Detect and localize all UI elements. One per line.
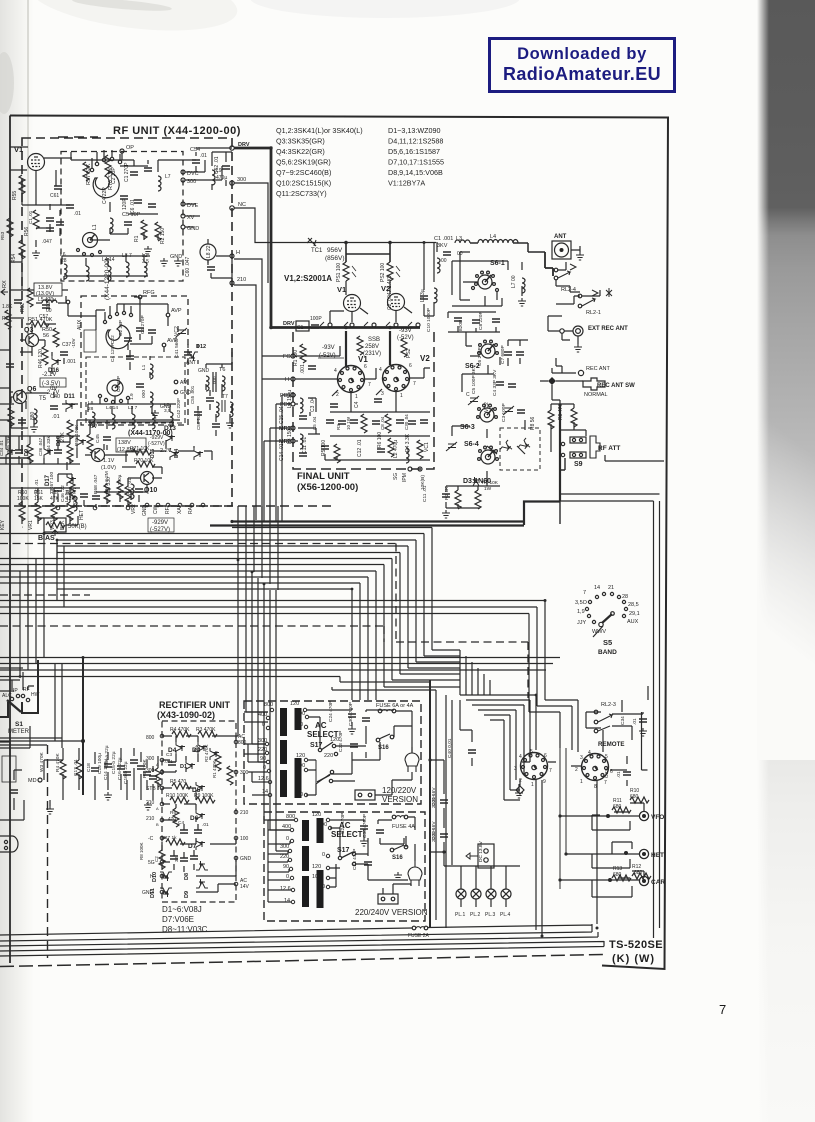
wire bus h11 xyxy=(57,589,352,687)
wire Q3 area xyxy=(10,318,64,374)
svg-text:1W: 1W xyxy=(484,486,492,492)
wire bus verticals left xyxy=(20,533,64,676)
svg-text:R5 470: R5 470 xyxy=(170,779,186,785)
label 1.8K R48 xyxy=(2,304,13,329)
wire bus h10 xyxy=(0,583,360,687)
ground T7 xyxy=(226,420,234,428)
label -93V (-52V) right xyxy=(397,328,414,341)
resistor R71 10K xyxy=(130,446,151,455)
svg-text:(856V): (856V) xyxy=(325,255,345,262)
svg-text:D4,11,12:1S2588: D4,11,12:1S2588 xyxy=(388,137,443,146)
svg-text:V2: V2 xyxy=(420,354,430,363)
diode D3 xyxy=(470,477,482,486)
svg-text:14: 14 xyxy=(284,898,290,904)
svg-text:C1 270P: C1 270P xyxy=(140,315,146,334)
capacitor C42 220P xyxy=(176,398,202,418)
svg-text:R64 33k: R64 33k xyxy=(46,436,52,454)
resistor R51 470K xyxy=(28,317,53,327)
capacitor C15 .04 xyxy=(279,406,307,424)
svg-text:C61: C61 xyxy=(50,193,59,199)
capacitor C12 .01 xyxy=(357,439,385,457)
svg-text:R55: R55 xyxy=(12,191,18,200)
svg-text:3: 3 xyxy=(580,755,583,761)
svg-text:C3: C3 xyxy=(166,752,172,758)
svg-text:H: H xyxy=(285,377,289,383)
svg-text:D8: D8 xyxy=(184,873,190,880)
svg-text:L8 22: L8 22 xyxy=(206,245,212,258)
svg-text:120: 120 xyxy=(290,701,299,707)
svg-text:680: 680 xyxy=(630,794,639,800)
svg-text:PL.3: PL.3 xyxy=(485,912,496,918)
wire bus h8 xyxy=(0,571,376,687)
lamp circle PL xyxy=(200,239,216,265)
svg-text:REMOTE: REMOTE xyxy=(598,741,624,748)
wire right bundle verticals xyxy=(529,700,578,752)
resistor R11 680 xyxy=(612,798,631,813)
svg-text:800: 800 xyxy=(264,702,273,708)
wire plate leads heavy xyxy=(346,331,390,366)
svg-text:C10 1000P: C10 1000P xyxy=(426,308,432,332)
svg-text:JJY: JJY xyxy=(577,620,587,626)
rotary switch S fan top xyxy=(90,150,121,198)
svg-text:14: 14 xyxy=(594,585,600,591)
S17 arm lower xyxy=(338,852,355,866)
wire bus h9 xyxy=(0,577,368,687)
svg-text:C34 .01: C34 .01 xyxy=(0,440,4,456)
svg-text:C41 560P: C41 560P xyxy=(174,337,180,358)
svg-text:R8 56: R8 56 xyxy=(530,416,536,430)
svg-text:A: A xyxy=(156,806,159,811)
svg-text:.001: .001 xyxy=(66,359,76,365)
svg-text:RF ATT: RF ATT xyxy=(598,445,620,452)
svg-text:C5 100P 3KV: C5 100P 3KV xyxy=(471,364,477,394)
coil L7 xyxy=(158,174,171,191)
wire het xyxy=(566,842,639,868)
capacitor C19 100u xyxy=(97,753,125,774)
svg-text:C1 270P: C1 270P xyxy=(124,162,130,182)
svg-text:C53: C53 xyxy=(0,297,1,306)
diode D6 xyxy=(190,810,205,822)
220/240 version dashed box xyxy=(264,812,425,921)
svg-text:RFG: RFG xyxy=(143,290,155,296)
svg-text:CW: CW xyxy=(153,505,159,514)
rotary S6-4 xyxy=(464,441,498,464)
diode D2 xyxy=(193,745,219,760)
label SSB 258V (231V) xyxy=(363,337,381,357)
svg-text:28: 28 xyxy=(622,594,628,600)
capacitor C1 270P xyxy=(124,162,152,182)
resistor R54 R2 xyxy=(11,240,25,263)
label AM pin xyxy=(174,380,187,386)
svg-text:C15 .04: C15 .04 xyxy=(279,406,285,424)
wire att xyxy=(551,404,586,452)
fuse 2A bottom xyxy=(408,926,430,939)
resistor R12 680 xyxy=(632,864,651,879)
resistor R67 100 xyxy=(49,472,75,499)
wire feed DC connector xyxy=(446,695,452,928)
svg-text:C8 .04: C8 .04 xyxy=(380,416,385,430)
capacitor C15a 22u xyxy=(104,745,138,768)
svg-text:-C: -C xyxy=(148,836,154,842)
13.8V box xyxy=(34,283,62,297)
svg-text:S17: S17 xyxy=(337,847,350,854)
svg-text:C40: C40 xyxy=(50,394,60,400)
svg-text:1.8K: 1.8K xyxy=(2,304,13,310)
diode D1 xyxy=(180,760,195,772)
svg-text:3.5: 3.5 xyxy=(142,259,149,265)
svg-text:AUX: AUX xyxy=(627,619,639,625)
resistor R2 150 xyxy=(155,222,166,244)
wire ANT down heavy xyxy=(545,252,553,276)
connector block upper xyxy=(355,790,375,800)
svg-text:300: 300 xyxy=(237,177,246,183)
svg-text:C18: C18 xyxy=(86,763,92,772)
diode D10 vertical xyxy=(56,436,86,448)
wire lower ac box xyxy=(268,817,415,902)
ground Q6 xyxy=(30,424,38,432)
svg-text:6: 6 xyxy=(409,363,412,369)
svg-text:400: 400 xyxy=(282,824,291,830)
svg-text:800: 800 xyxy=(146,735,155,741)
taps lower left xyxy=(280,814,298,904)
capacitor C60 .047 xyxy=(185,256,215,277)
capacitor C14 .01 xyxy=(279,443,307,461)
svg-text:2: 2 xyxy=(336,392,339,398)
caps C10 1000P C8 820P C6 220P xyxy=(426,308,500,332)
svg-text:C15-b 22µ: C15-b 22µ xyxy=(111,751,117,774)
svg-text:GND: GND xyxy=(142,890,154,896)
capacitor C45 xyxy=(95,434,111,443)
svg-text:STB: STB xyxy=(146,786,156,792)
rotary switch fan mid xyxy=(103,304,132,349)
svg-text:120: 120 xyxy=(296,753,305,759)
wire T6 T7 xyxy=(198,344,232,436)
caps C5 C4 33P xyxy=(471,364,516,396)
diode D8 rect xyxy=(184,861,208,880)
diode D16 xyxy=(48,356,61,374)
wire top bus to ANT xyxy=(470,243,545,252)
svg-text:VR1: VR1 xyxy=(28,520,34,530)
resistor R57 82K xyxy=(83,162,92,185)
resistor R10 680 xyxy=(630,788,649,803)
svg-text:300: 300 xyxy=(146,768,155,774)
coil L3 top xyxy=(455,236,470,257)
plug upper xyxy=(405,747,419,772)
heavy vertical x83 xyxy=(82,657,84,795)
coil L1 mid xyxy=(141,364,153,379)
resistor R7 1K xyxy=(164,835,185,845)
capacitor C2 33P xyxy=(111,167,138,184)
svg-text:REC ANT: REC ANT xyxy=(586,366,610,372)
svg-text:C3 100P: C3 100P xyxy=(501,403,507,422)
svg-text:956V: 956V xyxy=(327,247,343,254)
wire long verticals to AC taps xyxy=(236,560,294,851)
wire meter bus xyxy=(0,726,83,748)
wire Q9 Q10 area xyxy=(57,420,212,508)
svg-text:V1: V1 xyxy=(358,355,368,364)
svg-text:S9: S9 xyxy=(574,461,583,468)
wire bus h13 xyxy=(0,607,537,706)
resistor R1 100 final xyxy=(293,344,306,366)
diode D9 rect xyxy=(184,879,208,898)
socket remote right xyxy=(575,750,613,790)
svg-text:400: 400 xyxy=(258,712,267,718)
wire rectifier internals xyxy=(162,736,236,892)
label ANT GND small xyxy=(186,360,210,374)
RF coil sub-box xyxy=(86,357,185,423)
svg-text:L2 470µ: L2 470µ xyxy=(393,440,399,458)
svg-text:C11 .01: C11 .01 xyxy=(302,437,308,454)
cluster R56 C50 .047 xyxy=(24,210,54,245)
ground L7 xyxy=(518,298,526,306)
S17 lower arm box xyxy=(316,760,334,784)
svg-text:210: 210 xyxy=(146,800,155,806)
svg-text:GND: GND xyxy=(142,505,148,517)
transformer bar C3 xyxy=(302,876,309,907)
coils L6 L5 L4 L3 L2 row mid xyxy=(88,400,173,429)
resistor R50 56 xyxy=(42,327,59,347)
thin vertical x62 xyxy=(55,663,62,748)
fuse upper xyxy=(376,703,414,713)
capacitor C1 270P mid xyxy=(140,315,156,334)
ground ANT xyxy=(571,246,584,260)
svg-text:220/240V VERSION: 220/240V VERSION xyxy=(355,908,428,917)
svg-text:R70 10K: R70 10K xyxy=(134,458,154,464)
label -93V (-52V) left xyxy=(318,345,344,359)
svg-text:210: 210 xyxy=(240,810,249,816)
svg-text:RF UNIT (X44-1200-00): RF UNIT (X44-1200-00) xyxy=(113,125,241,137)
svg-text:C17 .01: C17 .01 xyxy=(73,759,79,776)
svg-text:R4 470K: R4 470K xyxy=(170,727,190,733)
RF dashed bottom long line xyxy=(0,505,332,507)
wire rf att down xyxy=(560,458,565,524)
svg-text:120P: 120P xyxy=(122,198,128,210)
socket remote left xyxy=(514,749,552,788)
svg-text:D7,10,17:1S1555: D7,10,17:1S1555 xyxy=(388,158,444,167)
taps lower right col xyxy=(312,812,332,890)
svg-text:C55 .001: C55 .001 xyxy=(190,385,195,404)
svg-text:GND: GND xyxy=(170,254,182,260)
switch REC ANT SW xyxy=(583,378,635,398)
svg-text:DRV: DRV xyxy=(283,321,295,327)
svg-text:C16-b 22µ: C16-b 22µ xyxy=(123,761,129,784)
wire bus h6 xyxy=(0,559,392,681)
svg-text:100P: 100P xyxy=(310,316,322,322)
svg-text:800: 800 xyxy=(286,814,295,820)
svg-text:D10: D10 xyxy=(56,436,62,446)
svg-text:R1 10K: R1 10K xyxy=(482,480,499,486)
svg-text:56: 56 xyxy=(43,333,49,339)
svg-text:GND: GND xyxy=(240,856,252,862)
RF unit outer dashed box xyxy=(22,138,232,506)
svg-text:RX: RX xyxy=(2,280,8,288)
svg-text:D1~3,13:WZ090: D1~3,13:WZ090 xyxy=(388,126,441,135)
capacitor C22 xyxy=(110,335,132,344)
svg-text:21: 21 xyxy=(608,585,614,591)
caps lower C2x C30 C23 xyxy=(340,813,384,870)
wire plate drops xyxy=(346,243,390,263)
svg-text:ANT: ANT xyxy=(554,234,567,240)
resistor R8 100K vert xyxy=(139,842,165,869)
svg-text:3,5O: 3,5O xyxy=(575,600,588,606)
wire left socket feeds xyxy=(560,712,566,889)
svg-text:R6: R6 xyxy=(170,810,176,816)
wire meter verticals xyxy=(0,668,34,690)
svg-text:VERSION: VERSION xyxy=(382,795,418,804)
dashed boundary mid 1 xyxy=(0,544,528,699)
svg-text:Q7~9:2SC460(B): Q7~9:2SC460(B) xyxy=(276,168,331,177)
resistor R8 56 xyxy=(530,410,554,430)
svg-text:1: 1 xyxy=(531,782,534,788)
svg-text:R56: R56 xyxy=(24,227,30,236)
resistor R46 120 xyxy=(38,346,48,368)
svg-text:R10 100K: R10 100K xyxy=(166,793,189,799)
svg-text:L4 150µ: L4 150µ xyxy=(287,390,293,408)
resistor R10 100K xyxy=(166,793,189,803)
wire left bottom xyxy=(0,742,24,820)
svg-text:C37: C37 xyxy=(62,342,71,348)
resistor R55 .53 xyxy=(12,175,25,200)
pin 300 xyxy=(230,177,246,185)
RF inner box 2 xyxy=(81,296,188,425)
wire DRV heavy xyxy=(234,148,271,328)
dashed boundary mid 2 xyxy=(0,626,384,642)
wire left column down xyxy=(10,240,36,290)
svg-text:.01: .01 xyxy=(74,211,81,217)
label GND tick xyxy=(170,254,182,260)
wire S6-34 area xyxy=(446,420,525,508)
left edge labels final unit xyxy=(283,354,295,360)
pin DRV xyxy=(230,142,250,150)
capacitor C3 .001 xyxy=(164,752,176,765)
svg-text:C6 270P: C6 270P xyxy=(477,347,483,366)
svg-text:METER: METER xyxy=(8,729,30,735)
svg-text:28,5: 28,5 xyxy=(628,602,639,608)
svg-text:(-527V): (-527V) xyxy=(148,441,165,447)
svg-text:R9 100K: R9 100K xyxy=(194,793,214,799)
ground V1 cathode xyxy=(32,250,40,258)
svg-text:RF1: RF1 xyxy=(165,504,171,514)
svg-text:0: 0 xyxy=(300,722,303,728)
svg-text:PS1 100: PS1 100 xyxy=(336,263,342,282)
svg-text:1.9M: 1.9M xyxy=(0,766,1,776)
svg-text:C2 33P: C2 33P xyxy=(118,320,124,336)
wire bus lower bundle xyxy=(0,658,560,677)
final socket V2 xyxy=(379,354,430,399)
resistor R4 3.3K xyxy=(405,433,423,459)
rotary fan lower (1.9 coil switch) xyxy=(98,380,129,404)
ground upper box xyxy=(348,726,356,734)
svg-text:3KV: 3KV xyxy=(437,243,448,249)
svg-text:0: 0 xyxy=(300,792,303,798)
diode D12 xyxy=(186,344,206,361)
wire Q6 area xyxy=(10,392,78,430)
cap C6 .01 C5 xyxy=(130,199,156,214)
svg-text:RAL: RAL xyxy=(188,504,194,514)
pins SG IPM xyxy=(393,467,412,480)
wire NC to TC1 line xyxy=(234,208,310,243)
svg-text:C45: C45 xyxy=(95,434,101,443)
socket pins row driver xyxy=(320,322,420,327)
wire C2 L1 xyxy=(424,242,437,316)
svg-text:D6: D6 xyxy=(190,815,199,822)
svg-text:C12 .01: C12 .01 xyxy=(357,439,363,457)
svg-text:5: 5 xyxy=(605,754,608,760)
jack EXT REC ANT xyxy=(573,326,628,336)
wire H down xyxy=(234,259,262,520)
coil L2 00 xyxy=(437,258,447,273)
resistor row box labels xyxy=(17,490,76,521)
svg-text:4: 4 xyxy=(379,367,382,373)
svg-text:Q10: Q10 xyxy=(144,487,157,494)
svg-text:VR2: VR2 xyxy=(131,504,137,514)
caps row final unit xyxy=(312,414,428,433)
label GND mid pins xyxy=(174,390,191,396)
taps upper right col xyxy=(290,701,309,798)
wire lamps bus xyxy=(444,852,520,879)
svg-text:5G: 5G xyxy=(148,860,155,866)
rect board right pins xyxy=(234,734,251,890)
capacitor C57 .01 xyxy=(127,478,143,495)
coil L6 5u xyxy=(64,490,77,511)
svg-text:V1,2:S2001A: V1,2:S2001A xyxy=(284,274,332,283)
svg-text:S16: S16 xyxy=(392,855,403,861)
resistor R4 470K top xyxy=(170,727,191,737)
main schematic frame xyxy=(10,116,668,970)
label 138V (12.8V) xyxy=(116,438,146,453)
caps C2 C5 33 cluster xyxy=(154,856,198,862)
resistor R52 1W xyxy=(20,288,33,312)
svg-text:C16-a 22µ: C16-a 22µ xyxy=(117,757,123,780)
svg-text:100K: 100K xyxy=(17,496,29,502)
rotary S6-3 xyxy=(460,404,497,431)
svg-text:L6: L6 xyxy=(88,400,94,406)
transistor Q9 xyxy=(92,449,105,462)
svg-text:5: 5 xyxy=(530,749,533,755)
svg-text:90: 90 xyxy=(260,756,266,762)
relay RL2-4 xyxy=(554,264,576,293)
svg-text:7: 7 xyxy=(413,381,416,387)
svg-text:3: 3 xyxy=(381,391,384,397)
coil L5 470u xyxy=(38,297,57,314)
capacitor C15b 22u xyxy=(111,751,145,774)
svg-text:.047: .047 xyxy=(42,239,52,245)
svg-text:(1.0V): (1.0V) xyxy=(101,465,116,471)
svg-text:0: 0 xyxy=(262,722,265,728)
label -929V (-527V) bottom xyxy=(148,518,174,533)
svg-text:NORMAL: NORMAL xyxy=(584,392,608,398)
svg-text:D15: D15 xyxy=(150,449,156,458)
svg-text:100: 100 xyxy=(240,836,249,842)
wire rl2-3 xyxy=(586,686,648,752)
diode D3 rect xyxy=(192,742,207,754)
capacitor C54 .01 xyxy=(190,147,207,163)
svg-text:6: 6 xyxy=(364,364,367,370)
wire rows box1 bottom xyxy=(62,202,158,280)
capacitor C33 .01 xyxy=(604,769,631,778)
svg-text:KEY: KEY xyxy=(0,519,6,530)
wire DRV bottom heavy xyxy=(271,326,420,329)
svg-text:FINAL UNIT: FINAL UNIT xyxy=(297,471,350,482)
svg-text:C3 33P: C3 33P xyxy=(116,376,122,392)
connector block lower xyxy=(378,894,398,904)
switch S16 lower xyxy=(390,845,408,861)
wire bus h3 xyxy=(57,540,416,662)
resistor R58 33K xyxy=(6,435,33,463)
transformer bar A2 xyxy=(280,740,287,764)
svg-text:C4 22P: C4 22P xyxy=(102,187,108,204)
GND symbol left xyxy=(46,800,54,814)
